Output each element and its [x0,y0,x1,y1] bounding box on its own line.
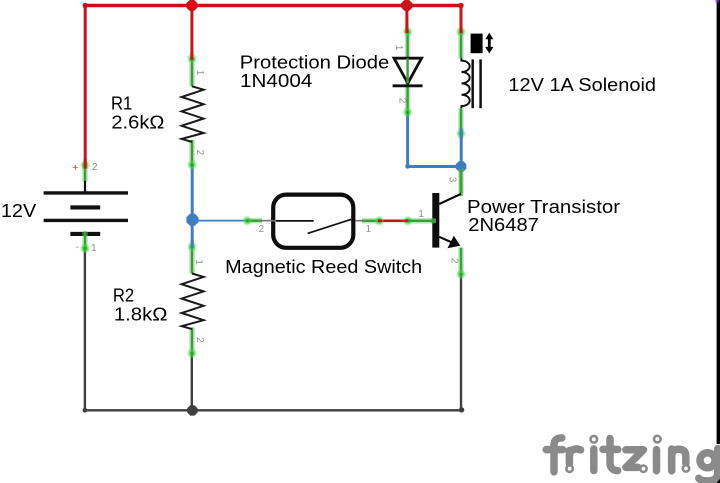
wire divider node to R2 (blue) [191,220,194,247]
svg-text:-: - [76,241,80,253]
fritzing logo [714,444,720,477]
svg-text:1: 1 [393,45,404,51]
node divider junction (blue) [186,214,198,226]
resistor R1 [182,53,204,170]
svg-text:12V: 12V [1,200,37,221]
svg-text:2: 2 [194,337,205,343]
wire reed to base (red) [374,216,413,227]
svg-text:1.8kΩ: 1.8kΩ [114,303,168,324]
wire diode cathode to collector node (blue) [405,112,461,168]
svg-text:+: + [72,162,78,174]
resistor R2 [182,241,204,358]
node collector junction (blue) [456,161,467,172]
wire divider node to reed switch (blue) [192,220,247,222]
wire tip overlays at connectors [85,25,461,248]
svg-text:1: 1 [91,243,97,254]
wire ground rail [83,407,465,412]
wire R1 bottom to divider node (blue) [191,165,194,220]
wire top rail (12V net) [83,3,464,8]
sheet right border [716,0,720,483]
wire diode top feed [405,6,408,34]
wire battery+ vertical [84,6,87,167]
svg-text:1: 1 [193,259,204,265]
svg-text:1N4004: 1N4004 [240,70,312,91]
wire R2 to ground rail [191,353,193,410]
svg-text:2: 2 [396,98,407,104]
reed switch S1 body [242,195,380,248]
wire emitter to ground rail [460,274,462,410]
svg-text:1: 1 [194,70,205,76]
wire battery- to ground rail [84,249,86,411]
wire solenoid top feed [460,6,463,34]
svg-text:2: 2 [449,258,460,264]
svg-text:1: 1 [418,209,424,220]
svg-text:2: 2 [259,224,265,235]
battery BAT1 [44,160,128,254]
svg-text:2.6kΩ: 2.6kΩ [111,112,164,133]
svg-text:Magnetic Reed Switch: Magnetic Reed Switch [225,256,422,277]
svg-text:3: 3 [447,177,458,183]
diode D1 [393,26,423,117]
node ground junction [187,405,197,415]
node junction top-left (R1 feed) [186,0,197,11]
svg-text:2: 2 [92,162,98,173]
svg-text:2N6487: 2N6487 [468,214,539,235]
svg-text:1: 1 [366,224,372,235]
svg-text:2: 2 [194,150,205,156]
solenoid L1 [456,26,494,166]
wire R1 top feed [190,6,193,61]
svg-text:R1: R1 [111,93,132,114]
transistor Q1 [409,169,467,280]
svg-text:12V 1A Solenoid: 12V 1A Solenoid [508,74,656,95]
node junction top-right (diode feed) [401,0,412,11]
